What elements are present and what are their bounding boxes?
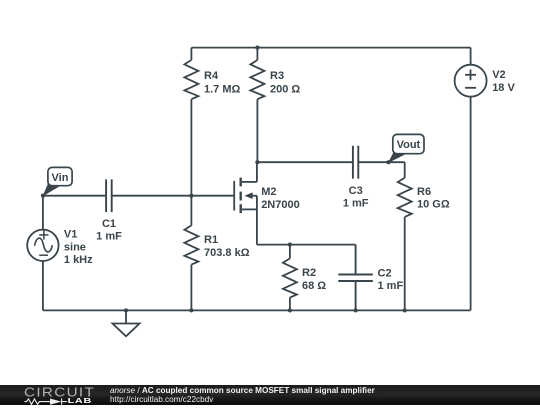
node drain xyxy=(255,160,259,164)
svg-text:R1: R1 xyxy=(204,234,218,246)
capacitor C2 xyxy=(338,245,403,311)
svg-text:Vout: Vout xyxy=(397,139,421,151)
svg-text:10 GΩ: 10 GΩ xyxy=(417,198,450,210)
ground xyxy=(113,310,140,336)
node source R2 xyxy=(288,243,292,247)
node C2 bottom xyxy=(354,308,358,312)
svg-text:R6: R6 xyxy=(417,186,431,198)
svg-text:Vin: Vin xyxy=(52,172,69,184)
capacitor C3 xyxy=(343,146,369,210)
wire C3 to R6 xyxy=(358,161,404,163)
svg-text:M2: M2 xyxy=(261,186,276,198)
node top R3 xyxy=(255,46,259,50)
svg-text:1.7 MΩ: 1.7 MΩ xyxy=(204,83,241,95)
node R6 bottom xyxy=(403,308,407,312)
svg-text:R2: R2 xyxy=(302,267,316,279)
source V2 (18 V) xyxy=(455,48,516,311)
svg-text:R3: R3 xyxy=(270,70,284,82)
wire Vin to C1 xyxy=(43,195,106,197)
node ground xyxy=(124,308,128,312)
node gate R1 xyxy=(189,194,193,198)
svg-text:2N7000: 2N7000 xyxy=(261,199,300,211)
svg-text:C2: C2 xyxy=(378,267,392,279)
wire bottom rail xyxy=(43,309,471,311)
node flag Vin xyxy=(44,167,73,195)
wire drain to C3 xyxy=(257,161,353,163)
wire C1 to gate xyxy=(112,195,235,197)
node flag Vout xyxy=(389,134,424,162)
wire top rail xyxy=(191,47,470,49)
svg-text:LAB: LAB xyxy=(68,396,92,404)
svg-text:C3: C3 xyxy=(349,185,363,197)
source V1 (sine) xyxy=(27,196,93,311)
CircuitLab logo xyxy=(23,386,97,410)
svg-text:V2: V2 xyxy=(492,69,505,81)
svg-text:V1: V1 xyxy=(64,229,77,241)
node R1 bottom xyxy=(189,308,193,312)
resistor R1 xyxy=(184,196,249,311)
wire source rail xyxy=(257,244,356,246)
svg-text:1 mF: 1 mF xyxy=(96,231,122,243)
node R2 bottom xyxy=(288,308,292,312)
capacitor C1 xyxy=(96,179,122,242)
resistor R3 xyxy=(250,48,300,163)
node Vin attach xyxy=(41,194,45,198)
svg-text:703.8 kΩ: 703.8 kΩ xyxy=(204,247,250,259)
svg-text:18 V: 18 V xyxy=(492,82,515,94)
svg-text:1 mF: 1 mF xyxy=(343,198,369,210)
transistor M2 (NMOS 2N7000) xyxy=(234,162,300,244)
svg-text:R4: R4 xyxy=(204,70,219,82)
resistor R2 xyxy=(283,245,326,311)
resistor R4 xyxy=(184,48,240,196)
resistor R6 xyxy=(398,162,450,310)
svg-text:sine: sine xyxy=(64,241,86,253)
svg-text:200 Ω: 200 Ω xyxy=(270,83,300,95)
svg-text:1 kHz: 1 kHz xyxy=(64,254,93,266)
svg-text:C1: C1 xyxy=(102,218,116,230)
svg-text:1 mF: 1 mF xyxy=(378,280,404,292)
node Vout attach xyxy=(386,160,390,164)
svg-text:68 Ω: 68 Ω xyxy=(302,280,326,292)
footer bar xyxy=(0,385,540,405)
